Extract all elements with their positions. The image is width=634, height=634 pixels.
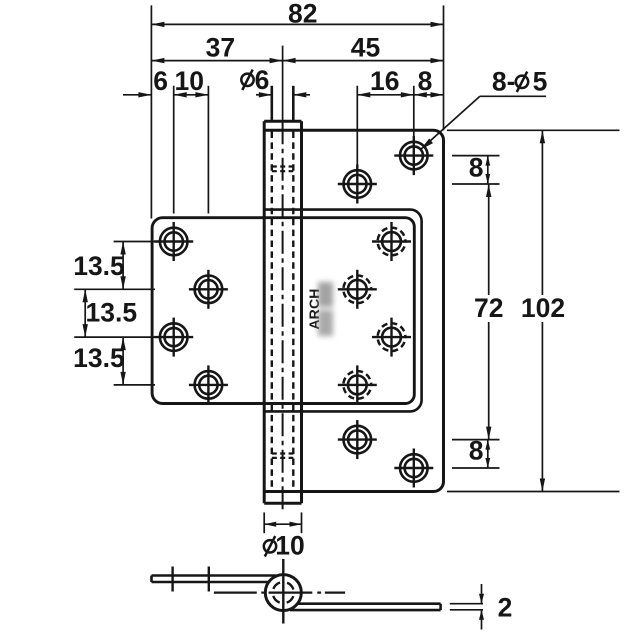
- dimension 10: [174, 94, 209, 96]
- svg-text:37: 37: [206, 32, 235, 62]
- hole bottom-right of right leaf: [394, 467, 433, 469]
- hidden pin groove top: [272, 165, 294, 167]
- dimension 102: [541, 130, 543, 295]
- hinge pin end above barrel: [270, 86, 273, 122]
- svg-text:82: 82: [288, 0, 317, 28]
- centerline extension above barrel: [282, 46, 284, 122]
- left hinge leaf outline (wraps behind): [152, 218, 414, 404]
- extension lines thickness 2: [450, 603, 483, 605]
- hidden hole row2 on folded leaf: [338, 288, 377, 290]
- extension lines 13.5 dims: [114, 241, 155, 243]
- watermark blurred katakana: [318, 282, 333, 336]
- svg-text:16: 16: [370, 66, 399, 96]
- side view horizontal centerline (chain): [214, 591, 257, 593]
- svg-text:8-: 8-: [492, 66, 516, 96]
- dimension 72: [488, 184, 490, 295]
- side view left arm: [152, 574, 277, 577]
- hole row1 left leaf: [154, 240, 193, 242]
- dimension 8 right top: [487, 156, 489, 184]
- svg-text:13.5: 13.5: [86, 297, 138, 327]
- hole row3 left leaf: [154, 336, 193, 338]
- barrel centerline (chain): [282, 121, 284, 512]
- dimension 82 top: [151, 23, 443, 25]
- pocket emboss outline (outer): [264, 210, 421, 412]
- hidden hole row3 on folded leaf: [372, 336, 411, 338]
- hole bottom-left of right leaf: [338, 438, 377, 440]
- svg-text:13.5: 13.5: [73, 343, 125, 373]
- side view hole centerline ticks: [171, 567, 173, 592]
- dimension 8 top-right: [414, 94, 444, 96]
- barrel knuckle outline: [263, 121, 266, 503]
- svg-text:72: 72: [474, 293, 503, 323]
- extension line hole column 16mm: [207, 86, 209, 214]
- dimension phi6 of pin: [256, 94, 272, 96]
- dimension 13.5 second: [84, 289, 86, 337]
- dimension 6: [123, 94, 151, 96]
- hidden hole row1 on folded leaf: [372, 240, 411, 242]
- svg-text:2: 2: [498, 592, 513, 622]
- svg-text:10: 10: [275, 531, 304, 561]
- hole row2 left leaf: [189, 288, 228, 290]
- extension line hole column 6mm: [173, 86, 175, 214]
- dimension 2: [481, 584, 483, 604]
- svg-text:8: 8: [469, 436, 484, 466]
- svg-text:45: 45: [351, 32, 380, 62]
- hidden hole row4 on folded leaf: [338, 384, 377, 386]
- svg-text:8: 8: [418, 66, 433, 96]
- svg-text:10: 10: [175, 66, 204, 96]
- extension lines phi10: [263, 512, 265, 533]
- dimension 37: [151, 60, 282, 62]
- dimension phi10: [264, 523, 301, 525]
- svg-text:6: 6: [153, 66, 168, 96]
- extension line hole column right-8: [413, 86, 415, 138]
- extension line hole column right-16: [356, 86, 358, 166]
- dimension 45: [283, 60, 444, 62]
- right hinge leaf outline: [264, 130, 443, 491]
- extension line left plate edge: [150, 5, 152, 218]
- dimension 13.5 first: [122, 242, 124, 290]
- hidden pin lines inside barrel: [271, 132, 273, 489]
- svg-text:5: 5: [533, 66, 548, 96]
- side view vertical centerline: [282, 559, 284, 624]
- extension lines right dims: [452, 155, 500, 157]
- hole row4 left leaf: [189, 384, 228, 386]
- dimension 8 right bottom: [487, 440, 489, 468]
- hidden pin groove bottom: [272, 452, 294, 454]
- dimension 13.5 third: [122, 337, 124, 385]
- svg-text:8: 8: [469, 153, 484, 183]
- hole 8-phi5 top-right: [394, 154, 433, 156]
- extension line right plate edge top: [443, 5, 445, 130]
- dimension 16: [357, 94, 414, 96]
- hole top-left of right leaf: [338, 183, 377, 185]
- side view right arm: [290, 602, 441, 605]
- svg-text:6: 6: [255, 65, 270, 95]
- svg-text:102: 102: [521, 293, 565, 323]
- side view hidden pin circle: [273, 582, 294, 603]
- leader line to hole: [480, 95, 546, 97]
- svg-text:13.5: 13.5: [73, 251, 125, 281]
- side view knuckle circle: [265, 575, 301, 611]
